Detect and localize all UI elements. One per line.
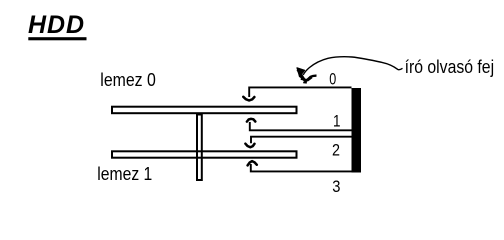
svg-text:3: 3 [332,177,340,196]
arm 0 [243,87,351,100]
svg-text:2: 2 [332,140,340,159]
arm 3 [248,161,352,171]
svg-text:író olvasó fej: író olvasó fej [405,57,495,77]
platter lemez0 (top disk) [112,107,297,114]
title HDD [28,11,87,40]
pointer arrowhead scribble [297,68,317,83]
spindle shaft [197,115,202,181]
curved pointer from label to head [303,57,402,75]
svg-text:lemez 0: lemez 0 [100,70,156,90]
actuator bar [352,88,362,173]
svg-text:1: 1 [333,111,341,130]
arm 2 [245,137,351,148]
arm 1 [247,119,352,131]
svg-text:0: 0 [329,69,336,88]
platter lemez1 (bottom disk) [112,151,297,157]
svg-text:lemez 1: lemez 1 [97,164,152,184]
svg-text:HDD: HDD [28,11,84,39]
